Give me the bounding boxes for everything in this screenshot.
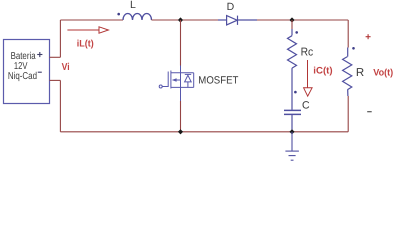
pin dot near R — [352, 47, 355, 50]
wire: top run to inductor — [60, 19, 123, 21]
svg-text:C: C — [302, 99, 310, 111]
output plus mark — [366, 34, 371, 39]
svg-text:Vo(t): Vo(t) — [373, 67, 393, 78]
capacitor C — [284, 110, 301, 114]
battery minus terminal mark — [38, 71, 42, 73]
resistor Rc — [288, 29, 297, 110]
wire: right vertical top (to R) — [347, 20, 349, 48]
diode D — [218, 16, 257, 25]
current arrow iL(t) — [67, 27, 108, 33]
wire: left vertical (- to bottom) — [59, 80, 61, 131]
wire: diode to output node — [257, 19, 348, 21]
battery plus terminal mark — [37, 52, 42, 57]
svg-text:Vi: Vi — [62, 62, 70, 73]
resistor R — [343, 48, 352, 97]
current arrow iC(t) — [304, 60, 313, 96]
svg-text:D: D — [227, 1, 235, 13]
wire: right vertical bottom — [347, 96, 349, 132]
pin dot near inductor — [117, 13, 120, 16]
wire: inductor to diode — [152, 19, 219, 21]
wire: battery - stub — [50, 79, 61, 81]
svg-text:Rc: Rc — [301, 46, 314, 58]
node junction bottom of MOSFET branch — [178, 129, 183, 134]
pin dot near Rc — [295, 31, 298, 34]
svg-text:Niq-Cad: Niq-Cad — [8, 71, 37, 82]
inductor L — [123, 14, 152, 21]
wire: MOSFET source vertical — [180, 101, 182, 132]
wire: left vertical (+ to top) — [59, 20, 61, 57]
wire: capacitor bottom stub — [291, 114, 293, 131]
svg-text:iC(t): iC(t) — [313, 66, 332, 77]
wire: MOSFET drain vertical — [180, 20, 182, 66]
battery B1 (Bateria 12V Niq-Cad) — [4, 40, 50, 104]
svg-text:R: R — [356, 67, 364, 79]
node junction top of MOSFET branch — [178, 17, 183, 22]
wire: Rc branch top stub — [291, 20, 293, 29]
wire: bottom run — [60, 131, 348, 133]
svg-text:MOSFET: MOSFET — [198, 74, 239, 86]
pin dot near C — [294, 91, 297, 94]
output minus mark — [367, 111, 372, 113]
ground — [285, 132, 299, 160]
node junction top of Rc branch — [289, 17, 294, 22]
node junction bottom of Rc branch — [289, 129, 294, 134]
MOSFET Q1 — [159, 66, 194, 102]
svg-text:L: L — [130, 0, 136, 11]
svg-text:iL(t): iL(t) — [77, 39, 94, 50]
wire: battery + stub — [50, 56, 61, 58]
